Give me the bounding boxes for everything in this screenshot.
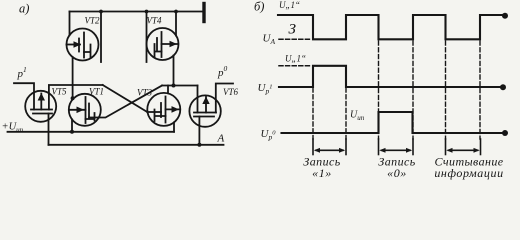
svg-text:Uр1: Uр1	[258, 82, 273, 96]
svg-text:«1»: «1»	[312, 166, 332, 180]
junction dot word line/VT6 gate	[197, 143, 201, 147]
wire VT6 gate to word line	[198, 117, 200, 145]
wire VT1 source to supply rail	[71, 119, 73, 131]
Up1 end dot	[500, 84, 506, 90]
junction dot node1 on VT1	[71, 96, 75, 100]
svg-text:Uип: Uип	[350, 110, 365, 123]
interval bars write1	[313, 139, 346, 155]
dashed lead Up1 high level	[279, 65, 310, 67]
power rail +U top	[70, 11, 205, 13]
node 2 wire	[162, 85, 198, 87]
wire VT3 source to supply rail	[173, 122, 175, 131]
svg-text:UА: UА	[263, 33, 276, 47]
transistor VT5	[25, 85, 67, 122]
interval bars write0	[379, 139, 414, 155]
svg-text:U„1“: U„1“	[279, 0, 300, 10]
wire VT2 drain to rail	[100, 12, 102, 63]
wire VT1 gate to node2 (diagonal)	[99, 86, 162, 118]
svg-text:б): б)	[254, 0, 264, 14]
waveform Up1	[279, 66, 504, 87]
bit line p1 lead	[14, 83, 34, 109]
svg-text:VT4: VT4	[147, 16, 163, 26]
svg-text:A: A	[217, 133, 225, 145]
transistor VT1	[69, 87, 104, 126]
word line A	[49, 144, 224, 146]
wire VT5 gate to word line	[48, 114, 50, 145]
svg-text:а): а)	[19, 2, 29, 16]
svg-text:p0: p0	[217, 64, 228, 79]
svg-text:U„1“: U„1“	[285, 54, 306, 64]
supply rail +Uип	[8, 131, 175, 133]
svg-text:информации: информации	[434, 166, 503, 180]
bit line p0 lead	[216, 84, 233, 113]
junction dot node2/VT4	[172, 84, 176, 88]
wire VT4 gate to rail	[175, 12, 177, 36]
waveform UA	[278, 15, 506, 39]
svg-text:З: З	[289, 22, 297, 38]
svg-text:VT1: VT1	[89, 87, 104, 97]
junction dot rail/VT2 drain	[99, 10, 103, 14]
svg-text:VT2: VT2	[85, 16, 101, 26]
wire VT4 drain to rail	[146, 12, 148, 63]
wire VT4 drain down to node 2	[173, 56, 175, 86]
wire VT2 drain down to node 1	[72, 57, 74, 98]
svg-text:VT5: VT5	[52, 87, 68, 97]
power rail terminator bar	[202, 4, 205, 22]
svg-text:«0»: «0»	[387, 166, 407, 180]
Up0 end dot	[502, 130, 508, 136]
node 1 wire	[49, 84, 103, 86]
svg-text:VT6: VT6	[223, 87, 239, 97]
wire VT3 drain to node2	[167, 86, 169, 94]
wire node1 to VT3 gate (diagonal)	[103, 85, 148, 112]
svg-text:Uр0: Uр0	[261, 128, 277, 142]
UA end dot	[502, 13, 508, 19]
transistor VT4	[147, 16, 179, 61]
transistor VT2	[67, 16, 101, 61]
dashed lead UA low level	[279, 38, 311, 40]
wire VT2 gate to rail	[69, 12, 71, 36]
interval bars read	[446, 139, 481, 155]
waveform Up0	[282, 112, 506, 133]
transistor VT3	[137, 88, 180, 126]
transistor VT6	[189, 86, 238, 127]
junction dot rail/VT4 gate	[174, 10, 178, 14]
svg-text:p1: p1	[17, 65, 27, 80]
svg-text:+Uип: +Uип	[2, 122, 24, 135]
junction dot supply/VT1	[70, 130, 74, 134]
dashed timing verticals	[313, 41, 480, 139]
svg-text:VT3: VT3	[137, 88, 153, 98]
junction dot rail/VT4 drain	[145, 10, 149, 14]
